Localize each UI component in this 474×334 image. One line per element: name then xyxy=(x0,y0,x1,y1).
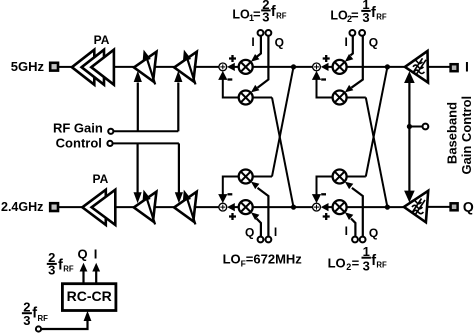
svg-text:RF: RF xyxy=(38,314,49,323)
gain control arrow into B2 xyxy=(175,143,183,203)
gain control arrow into U2 xyxy=(404,127,415,203)
summer S2 (5GHz stage-2) (adder) xyxy=(312,55,330,80)
wire M4 input stub xyxy=(347,97,366,99)
wire PA1 to VGA A1 xyxy=(114,66,135,68)
wire RC-CR input xyxy=(41,311,91,329)
mixer M5 (2.4GHz stage-1 I) xyxy=(239,200,253,214)
port pad 5GHz xyxy=(50,63,58,71)
svg-text:2.4GHz: 2.4GHz xyxy=(1,200,43,214)
variable gain amplifier A1 (5GHz RF VGA) xyxy=(134,50,157,85)
summer S4 (2.4GHz stage-2) (adder) xyxy=(312,194,330,220)
wire main line M7 to baseband VGA U2 with junction xyxy=(347,206,405,208)
svg-text:LO: LO xyxy=(330,8,348,22)
node junction lower stage-1 xyxy=(291,205,296,210)
wire M2 input stub xyxy=(253,97,272,99)
svg-text:5GHz: 5GHz xyxy=(11,59,45,74)
svg-text:=: = xyxy=(253,6,261,21)
wire PA2 to VGA B1 xyxy=(115,206,134,208)
wire terminal2 rail (lower VGAs) xyxy=(113,142,179,144)
wire main line M1 to S2 with junction xyxy=(253,66,313,68)
wire LOF Q into M5 xyxy=(251,212,261,236)
svg-text:LO: LO xyxy=(223,252,241,267)
variable gain amplifier B2 (2.4GHz RF VGA) xyxy=(174,190,197,225)
mixer M4 (5GHz stage-2 Q) xyxy=(333,91,347,105)
svg-text:I: I xyxy=(274,225,277,239)
wire pad to PA1 xyxy=(59,66,73,68)
svg-text:RF Gain: RF Gain xyxy=(53,120,103,135)
LO1 I terminal (top) xyxy=(258,30,264,36)
LOF I terminal (bottom) xyxy=(266,237,272,243)
wire B1 to B2 xyxy=(153,206,174,208)
wire terminal1 rail (upper VGAs) xyxy=(113,130,178,132)
svg-text:RF: RF xyxy=(376,12,387,21)
wire M2 output to S1 feedback xyxy=(223,76,239,98)
svg-text:Q: Q xyxy=(369,226,378,240)
node junction lower stage-2 xyxy=(385,205,390,210)
svg-text:I: I xyxy=(345,224,348,238)
svg-text:Q: Q xyxy=(369,36,378,50)
wire LO2 I into M3 xyxy=(345,36,354,62)
summer S3 (2.4GHz stage-1) (adder) xyxy=(218,194,236,220)
baseband VGA U1 (I path) xyxy=(405,51,428,83)
wire M6 output to S3 feedback xyxy=(223,177,239,199)
label LO2 = 1/3 fRF (top) xyxy=(330,0,386,25)
label LO2 = 1/3 fRF (bottom) xyxy=(328,244,387,273)
wire LO1 I into M1 xyxy=(251,36,261,62)
cross-coupling wire upper Q-mixer stub to lower dot xyxy=(272,98,294,208)
gain control arrow into A1 xyxy=(134,71,142,132)
LO2 Q terminal (top) xyxy=(359,30,365,36)
wire S2 to mixer M3 xyxy=(325,66,333,68)
svg-text:I: I xyxy=(345,35,348,49)
svg-text:Q: Q xyxy=(463,199,474,215)
wire junction to baseband control terminal xyxy=(409,126,422,128)
label LO1 = 2/3 fRF xyxy=(232,0,286,24)
wire S3 to mixer M5 xyxy=(231,206,239,208)
mixer M3 (5GHz stage-2 I) xyxy=(333,60,347,74)
wire M8 output to S4 feedback xyxy=(317,177,333,199)
svg-text:RC-CR: RC-CR xyxy=(67,288,112,304)
mixer M8 (2.4GHz stage-2 Q) xyxy=(333,170,347,184)
RF gain control terminal 1 xyxy=(108,129,113,134)
wire M8 input stub xyxy=(347,176,366,178)
svg-text:RF: RF xyxy=(63,264,74,273)
svg-text:3: 3 xyxy=(48,262,55,277)
wire LOF I into M6 xyxy=(251,182,269,237)
label 2/3 fRF (RC-CR input) xyxy=(22,299,48,328)
cross-coupling wire upper dot to lower Q-mixer stub xyxy=(272,67,294,177)
wire LO2 Q into M4 xyxy=(345,36,363,93)
RC-CR I output arrow xyxy=(92,263,100,284)
svg-text:Q: Q xyxy=(78,246,88,261)
baseband VGA U2 (Q path) xyxy=(404,191,428,223)
svg-text:LO: LO xyxy=(232,7,250,21)
svg-text:3: 3 xyxy=(23,313,30,328)
variable gain amplifier B1 (2.4GHz RF VGA) xyxy=(134,190,157,225)
cross-coupling wire upper dot2 to lower stage-2 Q stub xyxy=(366,67,388,177)
power amplifier PA2 (2.4GHz), 2 stacked triangles xyxy=(82,172,115,225)
wire U1 to I pad xyxy=(428,66,450,68)
svg-text:I: I xyxy=(465,59,469,75)
gain control arrow into B1 xyxy=(134,143,142,203)
svg-text:RF: RF xyxy=(376,261,387,270)
port pad I output xyxy=(451,64,458,71)
svg-text:RF: RF xyxy=(276,12,287,21)
wire A1 to A2 xyxy=(154,66,175,68)
wire M4 output to S2 feedback xyxy=(317,76,333,98)
mixer M6 (2.4GHz stage-1 Q) xyxy=(239,170,253,184)
svg-text:3: 3 xyxy=(362,10,369,25)
mixer M7 (2.4GHz stage-2 I) xyxy=(333,200,347,214)
mixer M2 (5GHz stage-1 Q) xyxy=(239,91,253,105)
svg-text:=672MHz: =672MHz xyxy=(246,252,302,267)
svg-text:LO: LO xyxy=(328,256,346,271)
port pad Q output xyxy=(451,203,458,210)
svg-text:Gain Control: Gain Control xyxy=(459,96,474,175)
svg-text:I: I xyxy=(251,35,254,49)
wire pad to PA2 xyxy=(59,206,84,208)
svg-text:=: = xyxy=(351,7,359,22)
LO1 Q terminal (top) xyxy=(266,30,272,36)
RC-CR input terminal xyxy=(36,326,41,331)
label 2/3 fRF (RC-CR outputs) xyxy=(47,250,74,278)
RF gain control terminal 2 xyxy=(107,141,112,146)
RC-CR Q output arrow xyxy=(80,263,88,284)
node junction upper stage-1 xyxy=(291,64,296,69)
svg-text:PA: PA xyxy=(94,33,110,47)
summer S1 (5GHz stage-1) (adder) xyxy=(218,55,236,80)
wire LO2 Q into M8 xyxy=(345,182,363,237)
wire LO1 Q into M2 xyxy=(251,36,269,93)
node junction upper stage-2 xyxy=(385,64,390,69)
svg-text:3: 3 xyxy=(262,9,269,24)
wire main line M3 to baseband VGA with junction xyxy=(347,66,406,68)
wire S1 to mixer M1 xyxy=(231,66,239,68)
variable gain amplifier A2 (5GHz RF VGA) xyxy=(174,50,197,85)
wire S4 to mixer M7 xyxy=(325,206,333,208)
svg-text:Baseband: Baseband xyxy=(444,102,459,164)
wire M6 input stub xyxy=(253,176,272,178)
baseband gain control terminal xyxy=(423,124,429,130)
svg-text:Q: Q xyxy=(245,225,254,239)
LO2 I terminal (bottom) xyxy=(352,237,358,243)
svg-text:=: = xyxy=(352,256,360,271)
node baseband control junction xyxy=(407,124,412,129)
wire B2 to summer S3 xyxy=(194,206,219,208)
svg-text:PA: PA xyxy=(93,172,109,186)
wire U2 to Q pad xyxy=(427,206,450,208)
svg-text:3: 3 xyxy=(363,258,370,273)
RC-CR block xyxy=(62,284,116,311)
port pad 2.4GHz xyxy=(50,203,58,211)
LO2 Q terminal (bottom) xyxy=(360,237,366,243)
svg-text:Control: Control xyxy=(56,136,102,151)
LOF Q terminal (bottom) xyxy=(258,237,264,243)
wire main line M5 to S4 with junction xyxy=(253,206,313,208)
label LOF=672MHz xyxy=(223,252,303,269)
LO2 I terminal (top) xyxy=(350,30,356,36)
svg-text:2: 2 xyxy=(346,262,351,272)
svg-text:Q: Q xyxy=(275,36,284,50)
mixer M1 (5GHz stage-1 I) xyxy=(239,60,253,74)
cross-coupling wire upper stage-2 Q stub to lower dot2 xyxy=(366,98,388,208)
svg-text:I: I xyxy=(94,246,98,261)
wire LO2 I into M7 xyxy=(345,212,356,236)
power amplifier PA1 (5GHz), 3 stacked triangles xyxy=(72,33,114,85)
gain control arrow into A2 xyxy=(174,71,182,132)
gain control arrow into U1 xyxy=(404,71,415,126)
wire A2 to summer S1 xyxy=(194,66,219,68)
